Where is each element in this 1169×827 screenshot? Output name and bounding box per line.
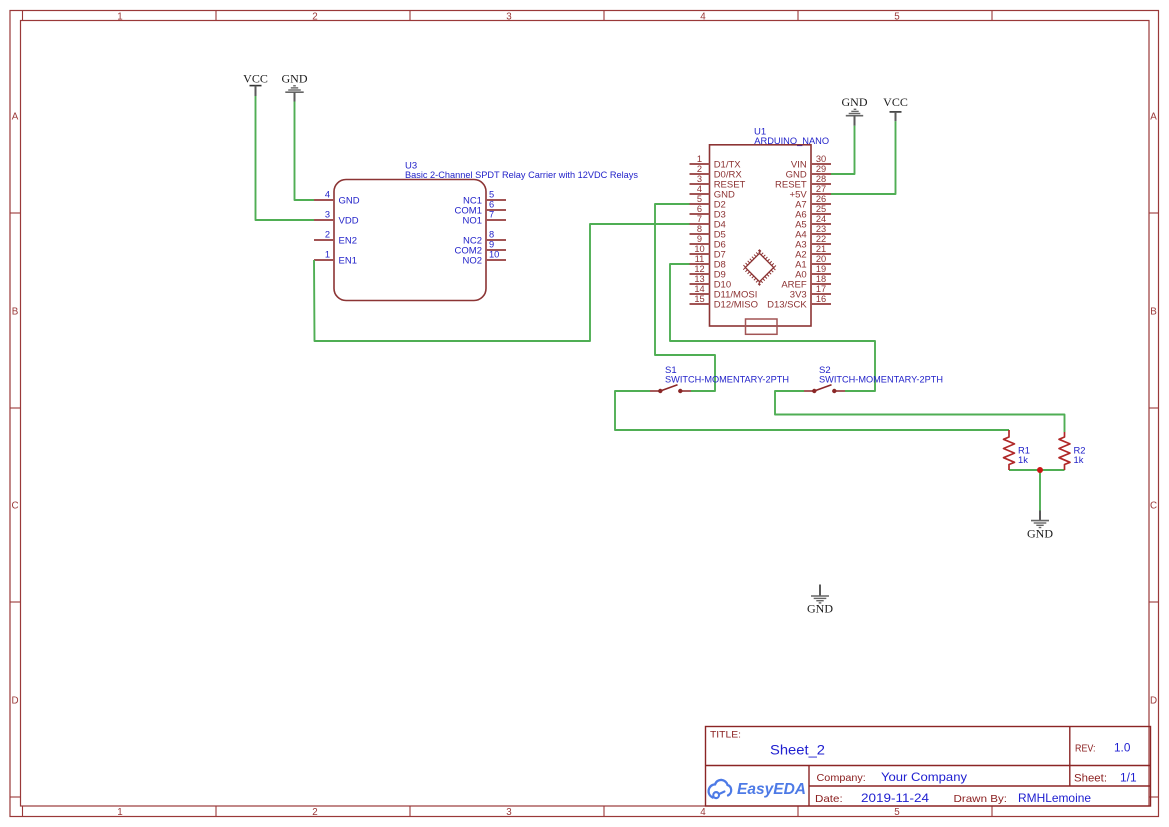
svg-text:1k: 1k	[1018, 454, 1028, 465]
svg-text:5: 5	[894, 11, 900, 22]
svg-text:1.0: 1.0	[1114, 743, 1130, 755]
U1 pin 12 D9	[690, 264, 726, 281]
svg-text:GND: GND	[1027, 527, 1053, 541]
svg-text:20: 20	[816, 254, 826, 264]
svg-text:23: 23	[816, 224, 826, 234]
svg-text:Date:: Date:	[815, 793, 843, 805]
svg-text:SWITCH-MOMENTARY-2PTH: SWITCH-MOMENTARY-2PTH	[819, 374, 943, 385]
resistor R1 1k	[1004, 430, 1015, 470]
wire junction to GND	[1039, 470, 1041, 511]
svg-text:EN1: EN1	[339, 256, 357, 267]
U3 pin 9 COM2	[455, 240, 506, 257]
svg-text:2: 2	[312, 11, 317, 22]
svg-text:GND: GND	[282, 71, 308, 85]
svg-text:17: 17	[816, 284, 826, 294]
U1 pin 16 D13/SCK	[767, 294, 831, 311]
wire R1 bottom to R2 bottom	[1009, 469, 1065, 471]
svg-text:3: 3	[325, 210, 330, 220]
svg-text:24: 24	[816, 214, 826, 224]
U1 pin 30 VIN	[791, 154, 831, 171]
U1 pin 11 D8	[690, 254, 726, 271]
svg-text:VDD: VDD	[339, 216, 359, 227]
svg-text:Basic 2-Channel SPDT Relay Car: Basic 2-Channel SPDT Relay Carrier with …	[405, 169, 638, 180]
U1 pin 27 +5V	[790, 184, 831, 201]
svg-text:NO1: NO1	[462, 216, 482, 227]
U1 chip diamond glyph	[744, 252, 776, 284]
power VCC (above U1)	[883, 95, 908, 121]
U1 pin 21 A2	[795, 244, 831, 261]
svg-text:1/1: 1/1	[1120, 773, 1137, 785]
U3 pin 10 NO2	[462, 250, 506, 267]
svg-text:2019-11-24: 2019-11-24	[861, 791, 929, 805]
svg-text:A: A	[12, 112, 19, 123]
svg-text:2: 2	[697, 164, 702, 174]
U1 pin 15 D12/MISO	[690, 294, 759, 311]
U3 pin 5 NC1	[463, 190, 506, 207]
svg-text:21: 21	[816, 244, 826, 254]
U1 pin 2 D0/RX	[690, 164, 743, 181]
U1 pin 13 D10	[690, 274, 732, 291]
svg-text:12: 12	[694, 264, 704, 274]
svg-text:2: 2	[312, 807, 317, 818]
svg-text:ARDUINO_NANO: ARDUINO_NANO	[754, 136, 829, 147]
U1 connector rectangle	[746, 319, 778, 334]
U1 pin 9 D6	[690, 234, 726, 251]
U1 pin 24 A5	[795, 214, 831, 231]
svg-text:6: 6	[697, 204, 702, 214]
U1 pin 6 D3	[690, 204, 726, 221]
svg-text:29: 29	[816, 164, 826, 174]
resistor R2 1k	[1059, 432, 1070, 470]
svg-text:C: C	[11, 501, 18, 512]
ground GND (below R1 R2)	[1027, 511, 1053, 541]
U3 pin 3 VDD	[314, 210, 359, 227]
svg-text:VCC: VCC	[243, 71, 268, 85]
svg-text:22: 22	[816, 234, 826, 244]
svg-text:18: 18	[816, 274, 826, 284]
svg-text:C: C	[1150, 501, 1157, 512]
svg-text:D: D	[11, 696, 18, 707]
svg-text:REV:: REV:	[1075, 743, 1096, 755]
svg-text:D13/SCK: D13/SCK	[767, 300, 807, 311]
wire S2 to R2	[775, 391, 1065, 432]
power VCC (top left)	[243, 71, 268, 96]
svg-text:NO2: NO2	[462, 256, 482, 267]
svg-text:19: 19	[816, 264, 826, 274]
U3 pin 2 EN2	[314, 230, 357, 247]
svg-text:27: 27	[816, 184, 826, 194]
svg-text:D12/MISO: D12/MISO	[714, 300, 758, 311]
U1 pin 18 AREF	[781, 274, 831, 291]
svg-text:Sheet_2: Sheet_2	[770, 742, 825, 758]
svg-text:1: 1	[117, 11, 122, 22]
svg-text:TITLE:: TITLE:	[710, 730, 741, 740]
svg-text:SWITCH-MOMENTARY-2PTH: SWITCH-MOMENTARY-2PTH	[665, 374, 789, 385]
U1 pin 10 D7	[690, 244, 726, 261]
svg-text:3: 3	[697, 174, 702, 184]
svg-text:GND: GND	[339, 196, 360, 207]
svg-text:1: 1	[697, 154, 702, 164]
svg-text:30: 30	[816, 154, 826, 164]
svg-text:6: 6	[489, 200, 494, 210]
U1 pin 28 RESET	[775, 174, 831, 191]
wire U1 D2 to S1	[655, 204, 715, 391]
svg-text:B: B	[12, 307, 19, 318]
wire U1 D8 to S2	[670, 264, 875, 391]
svg-text:EasyEDA: EasyEDA	[737, 781, 806, 798]
U3 pin 1 EN1	[314, 250, 357, 267]
U1 pin 7 D4	[690, 214, 726, 231]
svg-text:2: 2	[325, 230, 330, 240]
wire GND to U3 GND pin 4	[295, 102, 315, 201]
wire U1 +5V pin27 to VCC symbol	[831, 121, 896, 194]
svg-text:GND: GND	[842, 95, 868, 109]
U1 pin 14 D11/MOSI	[690, 284, 758, 301]
U3 pin 6 COM1	[455, 200, 506, 217]
svg-text:5: 5	[697, 194, 702, 204]
U1 pin 26 A7	[795, 194, 831, 211]
svg-text:4: 4	[697, 184, 702, 194]
svg-text:5: 5	[894, 807, 900, 818]
svg-text:Your Company: Your Company	[881, 770, 967, 784]
U1 pin 8 D5	[690, 224, 726, 241]
wire U1 GND pin29 to GND symbol	[831, 126, 855, 174]
svg-text:B: B	[1150, 307, 1157, 318]
U1 pin 19 A0	[795, 264, 831, 281]
svg-text:4: 4	[325, 190, 330, 200]
svg-text:14: 14	[694, 284, 704, 294]
U1 pin 17 3V3	[790, 284, 831, 301]
svg-text:7: 7	[489, 210, 494, 220]
U1 pin 3 RESET	[690, 174, 746, 191]
switch S2 SWITCH-MOMENTARY-2PTH	[804, 385, 845, 393]
U1 pin 5 D2	[690, 194, 726, 211]
svg-text:13: 13	[694, 274, 704, 284]
svg-text:1k: 1k	[1074, 454, 1084, 465]
svg-text:3: 3	[506, 11, 512, 22]
svg-text:EN2: EN2	[339, 236, 357, 247]
U3 pin 4 GND	[314, 190, 360, 207]
ground GND (isolated, center)	[807, 585, 833, 616]
svg-text:Company:: Company:	[817, 772, 866, 784]
wire VCC to U3 VDD pin 3	[256, 96, 315, 220]
switch S1 SWITCH-MOMENTARY-2PTH	[650, 385, 691, 393]
ground GND (top left)	[282, 71, 308, 101]
svg-text:8: 8	[489, 230, 494, 240]
svg-text:1: 1	[325, 250, 330, 260]
wire U3 EN1 to U1 D4	[314, 224, 690, 341]
svg-text:28: 28	[816, 174, 826, 184]
svg-text:9: 9	[697, 234, 702, 244]
svg-text:A: A	[1150, 112, 1157, 123]
svg-text:25: 25	[816, 204, 826, 214]
U1 pin 23 A4	[795, 224, 831, 241]
wire S1 to R1	[615, 391, 1009, 430]
svg-text:9: 9	[489, 240, 494, 250]
svg-text:5: 5	[489, 190, 494, 200]
U1 pin 4 GND	[690, 184, 735, 201]
svg-text:16: 16	[816, 294, 826, 304]
svg-text:D: D	[1150, 696, 1157, 707]
component U3 Basic 2-Channel SPDT Relay Carrier	[334, 180, 486, 301]
svg-text:7: 7	[697, 214, 702, 224]
U1 pin 22 A3	[795, 234, 831, 251]
svg-text:8: 8	[697, 224, 702, 234]
svg-text:15: 15	[694, 294, 704, 304]
svg-text:10: 10	[489, 250, 499, 260]
svg-text:GND: GND	[807, 602, 833, 616]
svg-text:11: 11	[695, 254, 705, 264]
U1 pin 20 A1	[795, 254, 831, 271]
svg-text:Drawn By:: Drawn By:	[954, 793, 1008, 805]
svg-text:26: 26	[816, 194, 826, 204]
svg-text:4: 4	[700, 11, 706, 22]
svg-text:1: 1	[117, 807, 122, 818]
svg-text:3: 3	[506, 807, 512, 818]
junction node	[1037, 467, 1043, 473]
svg-text:RMHLemoine: RMHLemoine	[1018, 791, 1091, 805]
svg-text:Sheet:: Sheet:	[1074, 773, 1107, 785]
svg-text:4: 4	[700, 807, 706, 818]
svg-text:VCC: VCC	[883, 95, 908, 109]
U3 pin 8 NC2	[463, 230, 506, 247]
svg-text:10: 10	[694, 244, 704, 254]
U1 pin 29 GND	[786, 164, 831, 181]
ground GND (above U1)	[842, 95, 868, 126]
U1 pin 25 A6	[795, 204, 831, 221]
component U1 ARDUINO_NANO	[710, 145, 812, 326]
U1 pin 1 D1/TX	[690, 154, 742, 171]
U3 pin 7 NO1	[462, 210, 506, 227]
